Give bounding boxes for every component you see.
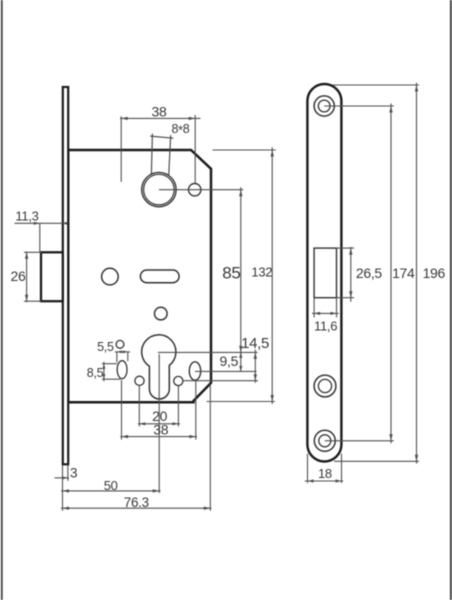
arrows dim 9,5	[239, 352, 242, 358]
dim 196: bottom extension	[334, 460, 419, 462]
svg-text:11,3: 11,3	[15, 209, 38, 224]
dim 8,5: top extension	[102, 363, 117, 365]
arrow dim 3	[62, 476, 68, 479]
euro cylinder hole	[142, 335, 176, 399]
dim 9,5: extension from right ellipse center	[195, 370, 257, 372]
arrows dim 38 bottom	[122, 435, 129, 438]
small circle left of cylinder	[135, 376, 144, 385]
dim 174: bottom extension from screw center	[325, 440, 394, 442]
dim 20: dimension line	[138, 423, 180, 425]
svg-text:38: 38	[153, 422, 168, 438]
dim 11,6: dimension line	[312, 312, 339, 314]
horizontal slot	[140, 270, 179, 283]
dim 5,5: dimension line	[115, 351, 130, 353]
svg-text:5,5: 5,5	[97, 340, 114, 354]
svg-text:8,5: 8,5	[87, 366, 104, 380]
svg-text:76.3: 76.3	[124, 495, 149, 510]
dim 132: top extension	[213, 149, 276, 151]
dim 8,5: dimension line	[103, 362, 105, 381]
dim 20: extension right	[177, 386, 179, 427]
dim 132: bottom extension	[207, 401, 276, 403]
middle screw hole	[314, 375, 336, 397]
dim 38 top: extension left	[120, 116, 122, 182]
dim 76.3: right extension	[209, 384, 211, 511]
dim 38 top: dimension line	[120, 117, 201, 119]
dim 11,3: dimension line	[15, 222, 63, 224]
arrows dim 132	[271, 150, 274, 157]
arrows dim 20	[139, 422, 145, 425]
dim 9,5: dimension line	[240, 352, 242, 371]
dim 18: extension left	[307, 454, 309, 483]
dim 14,5: dimension line	[254, 350, 256, 383]
arrows dim 5,5	[117, 350, 122, 353]
dim 196: top extension	[333, 84, 419, 86]
arrows dim 26	[25, 252, 28, 258]
dim 18: extension right	[341, 454, 343, 483]
dim 132: dimension line	[271, 147, 273, 404]
arrows dim 14,5	[254, 352, 257, 359]
faceplate (front view edge)	[63, 87, 68, 464]
dim 3: dimension line	[55, 477, 70, 479]
svg-text:14,5: 14,5	[241, 335, 269, 352]
dim 174: top extension from screw center	[324, 105, 394, 107]
small circle right of cylinder	[174, 376, 183, 385]
dim 26,5: bottom extension	[337, 297, 355, 299]
svg-text:174: 174	[392, 265, 415, 281]
svg-text:8*8: 8*8	[171, 122, 189, 138]
dim 8,5: bottom extension	[102, 378, 120, 380]
dim 11,6: extension left	[313, 298, 315, 318]
dim 11,6: extension right	[336, 298, 338, 318]
page left border	[1, 0, 3, 600]
dim 26: dimension line	[26, 252, 28, 303]
arrows dim 11,3	[34, 222, 40, 225]
dim 85: extension from handle hole center	[159, 189, 243, 191]
svg-text:26: 26	[11, 268, 26, 284]
svg-text:26,5: 26,5	[356, 265, 383, 281]
svg-text:50: 50	[104, 478, 118, 493]
right ellipse hole	[189, 362, 200, 380]
svg-text:11,6: 11,6	[314, 318, 337, 333]
left ellipse hole	[117, 361, 127, 379]
dim 11,3: extension	[39, 223, 41, 251]
dim 14,5: bottom extension from small circle	[183, 380, 258, 382]
dim 38 bottom: dimension line	[120, 436, 197, 438]
latch bolt	[41, 252, 63, 301]
faceplate plate (stadium)	[307, 84, 341, 462]
centre line from cylinder down to 50-dim	[158, 354, 160, 493]
small circle below slot	[155, 307, 168, 320]
latch window	[314, 248, 336, 298]
dim 18: dimension line	[305, 480, 343, 482]
dim 5,5: drop line left	[116, 352, 118, 362]
arrows dim 11,6	[314, 312, 320, 315]
dim 85: dimension line	[240, 187, 242, 354]
dim 26: bottom extension	[24, 300, 42, 302]
arrows dim 18	[308, 479, 314, 482]
handle hole (double circle)	[142, 172, 176, 206]
dim 174: dimension line	[390, 104, 392, 444]
dim 50: dimension line	[61, 490, 161, 492]
page right border	[450, 0, 452, 600]
lock body outline	[68, 150, 211, 402]
arrows dim 174	[389, 106, 392, 113]
dim: extension from cylinder center	[158, 351, 258, 353]
dim 5,5: drop line right	[127, 352, 129, 361]
arrows dim 8,5	[102, 364, 105, 369]
dim 50/76.3: left extension	[62, 465, 64, 511]
arrows dim 26,5	[349, 248, 352, 255]
arrows dim 196	[415, 85, 418, 92]
dim 196: dimension line	[416, 83, 418, 464]
svg-text:85: 85	[222, 263, 240, 282]
bottom screw hole	[314, 430, 335, 451]
svg-text:18: 18	[318, 466, 332, 481]
dim 26,5: dimension line	[350, 247, 352, 302]
dim 38 bottom: extension right	[195, 380, 197, 439]
mid-left circle	[102, 268, 119, 285]
svg-text:132: 132	[251, 265, 272, 280]
svg-text:38: 38	[152, 104, 167, 120]
small circle right of handle hole	[189, 184, 201, 196]
top screw hole	[314, 96, 334, 116]
dim 20: extension left	[138, 386, 140, 427]
arrows dim 76.3	[63, 507, 70, 510]
arrows dim 85	[239, 190, 242, 197]
dim 76.3: dimension line	[61, 507, 212, 509]
svg-text:3: 3	[70, 466, 77, 481]
spindle square 8x8 (rotated)	[150, 134, 173, 182]
svg-text:196: 196	[423, 265, 446, 281]
dim 38 bottom: extension left	[121, 380, 123, 440]
arrows dim 50	[63, 489, 70, 492]
dim 26,5: top extension	[337, 247, 355, 249]
arrows dim 38 top	[121, 117, 128, 120]
dim 26: top extension	[24, 251, 42, 253]
dim 3: extension	[67, 465, 69, 481]
svg-text:9,5: 9,5	[220, 353, 239, 369]
dim 38 top: extension right	[194, 115, 196, 183]
5,5 hole circle	[116, 340, 124, 348]
